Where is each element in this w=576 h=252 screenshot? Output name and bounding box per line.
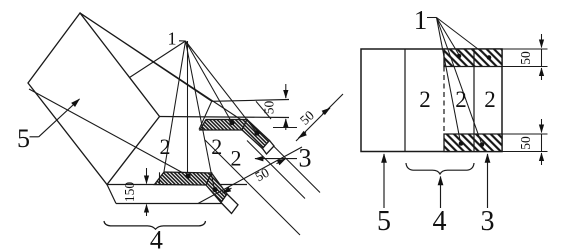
svg-text:50: 50 <box>253 165 272 185</box>
svg-text:50: 50 <box>518 51 533 65</box>
svg-text:2: 2 <box>160 134 171 159</box>
svg-text:4: 4 <box>433 206 447 237</box>
svg-text:2: 2 <box>455 87 467 112</box>
svg-text:5: 5 <box>377 206 391 237</box>
svg-text:1: 1 <box>414 5 428 35</box>
svg-text:50: 50 <box>262 101 277 115</box>
svg-text:2: 2 <box>211 134 222 159</box>
svg-text:50: 50 <box>297 107 317 127</box>
svg-text:2: 2 <box>484 87 496 112</box>
svg-text:1: 1 <box>168 29 177 49</box>
svg-text:5: 5 <box>17 124 30 153</box>
svg-text:2: 2 <box>419 87 431 112</box>
svg-text:4: 4 <box>150 226 163 252</box>
svg-text:3: 3 <box>481 206 495 237</box>
svg-text:3: 3 <box>299 144 312 173</box>
svg-text:2: 2 <box>231 146 242 171</box>
svg-text:50: 50 <box>518 136 533 150</box>
svg-text:150: 150 <box>122 182 137 203</box>
